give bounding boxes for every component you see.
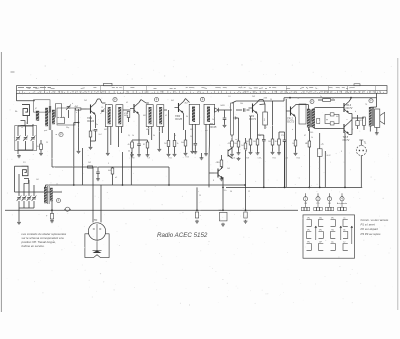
switch arrow 3 <box>351 226 353 244</box>
dial scale band <box>17 86 388 94</box>
switch pin P4 <box>340 197 344 201</box>
svg-text:OC72: OC72 <box>343 138 350 142</box>
resistor R11 <box>220 160 223 167</box>
resistor R10 <box>184 140 187 146</box>
svg-text:R24: R24 <box>297 158 300 160</box>
loudspeaker pins <box>93 228 95 230</box>
wire det h <box>218 109 232 111</box>
svg-text:6k8: 6k8 <box>108 170 111 172</box>
junction rail2 <box>350 97 352 99</box>
cap beside T5 <box>317 119 320 124</box>
switch pin stub P3 <box>329 193 331 196</box>
capacitor C25 <box>96 172 100 173</box>
wire C18 up <box>284 132 286 140</box>
ground T4a <box>190 150 194 153</box>
svg-text:b: b <box>355 111 356 113</box>
dial band cursor box <box>104 83 113 85</box>
wire R6 up <box>131 140 133 142</box>
junction busB4 <box>319 187 321 189</box>
wire R12 down <box>250 145 252 151</box>
ground R13 <box>256 152 260 155</box>
wire TR5b emit <box>349 134 352 136</box>
svg-text:12: 12 <box>56 184 58 186</box>
svg-text:OA70: OA70 <box>220 104 225 107</box>
wire Rv dn <box>231 147 233 153</box>
scan noise speckle <box>182 196 183 197</box>
switch pin P1 <box>303 197 307 201</box>
wire T2 v1225 <box>122 152 124 185</box>
tuning gang CV1 <box>16 136 21 141</box>
transistor TR5a <box>340 102 349 114</box>
svg-text:560: 560 <box>253 141 256 143</box>
wire v2845 <box>284 142 286 188</box>
svg-text:Comm. vu de l arriere: Comm. vu de l arriere <box>361 218 389 222</box>
osc transformer T7 coil <box>44 187 46 203</box>
wire TR2 coll h <box>141 100 146 104</box>
node B <box>154 98 158 102</box>
resistor R9 <box>173 141 176 147</box>
wire C8 gnd <box>138 146 140 154</box>
svg-text:T4: T4 <box>297 98 299 100</box>
switch pin P2 <box>316 197 320 201</box>
wire L4 down3 <box>28 180 30 196</box>
wire C24 up <box>245 150 247 210</box>
svg-text:2k3: 2k3 <box>252 96 255 98</box>
wire TR5a emit <box>349 113 352 115</box>
resistor R22 <box>244 143 247 149</box>
node F1 <box>59 132 63 136</box>
coupling box <box>299 104 306 124</box>
svg-text:0k1: 0k1 <box>171 100 174 102</box>
wire T4a pin1 <box>191 124 193 150</box>
resistor R2 <box>76 108 81 110</box>
wire to TR2 base <box>129 109 131 111</box>
svg-text:cv: cv <box>21 127 23 129</box>
trimmer CT2 <box>17 196 22 201</box>
svg-text:462: 462 <box>143 115 146 117</box>
svg-text:C1: C1 <box>101 107 103 109</box>
wire gang mid v <box>25 126 27 136</box>
wire T3b out <box>164 109 167 111</box>
wire LS gnd <box>376 127 378 131</box>
svg-text:tr2: tr2 <box>115 176 117 179</box>
junction C <box>78 122 80 124</box>
speaker LS cone <box>380 112 385 124</box>
wire TR5a coll <box>349 99 351 102</box>
wire TR3 emit <box>183 114 185 131</box>
osc transformer T1 primary <box>45 108 47 126</box>
wire det out <box>214 109 216 111</box>
electrolytic C19 <box>317 149 322 157</box>
junction busB3 <box>309 187 311 189</box>
node S <box>310 100 314 104</box>
wire TR2 coll <box>139 100 141 103</box>
svg-text:Radio ACEC 5152: Radio ACEC 5152 <box>157 232 208 239</box>
wire T7 bot <box>51 201 53 214</box>
osc transformer T1 core <box>48 106 50 130</box>
ground C23 <box>221 223 225 226</box>
wire R10 down <box>185 146 187 152</box>
junction A2 <box>244 184 246 186</box>
transistor TR2 <box>130 103 139 115</box>
wire T4b pin1 <box>205 124 207 152</box>
svg-text:5k: 5k <box>153 135 155 137</box>
output transformer T6 core <box>371 107 373 126</box>
ground T4b <box>204 153 208 156</box>
svg-text:8k2: 8k2 <box>246 141 249 143</box>
wire R24 left <box>318 99 323 101</box>
wire R6 h <box>132 139 148 141</box>
wire emit h <box>258 134 264 136</box>
scan edge left <box>0 52 2 312</box>
wire T6 top <box>370 106 376 108</box>
svg-text:e: e <box>347 119 348 121</box>
wire cap98 dn <box>97 174 99 178</box>
svg-text:9: 9 <box>341 151 342 153</box>
svg-text:R21: R21 <box>273 158 276 160</box>
dial band mark right <box>354 84 360 86</box>
resistor R1 <box>40 144 43 150</box>
wire C18 down <box>284 142 286 188</box>
resistor R14 <box>271 139 274 145</box>
IF transformer T2 secondary <box>116 105 123 127</box>
resistor R7 <box>146 142 149 148</box>
capacitor C13 <box>223 118 227 119</box>
T2 trimmer <box>101 109 104 111</box>
ground TR7 base <box>200 157 204 160</box>
svg-text:1k2: 1k2 <box>37 146 40 148</box>
capacitor C18 <box>283 140 287 141</box>
ground input <box>17 155 21 158</box>
wire CT gnd h <box>19 207 34 209</box>
junction B1 <box>263 187 265 189</box>
switch pin stub P1 <box>305 193 307 196</box>
scan edge right <box>397 58 399 310</box>
wire R15 up <box>278 132 280 139</box>
wire R16 down <box>295 146 297 152</box>
resistor R15 <box>278 139 281 145</box>
wire C12 down <box>194 145 196 151</box>
wire T4b pin2 <box>209 124 211 140</box>
wire v209 up <box>208 140 211 158</box>
ground bl <box>17 221 21 224</box>
svg-text:6Po: 6Po <box>319 230 322 232</box>
wire T2b out <box>123 109 129 111</box>
svg-text:2k2: 2k2 <box>84 100 87 102</box>
svg-text:4a: 4a <box>343 218 345 220</box>
wire lamp down <box>360 156 362 188</box>
ground C8 <box>137 154 141 157</box>
transistor TR1 <box>87 103 96 115</box>
wire R2 to base <box>81 108 87 110</box>
svg-text:470: 470 <box>124 113 127 115</box>
wire gang left v <box>17 126 19 136</box>
svg-text:25: 25 <box>199 195 201 197</box>
trimmer CT4 <box>27 196 32 201</box>
wire emit res h <box>352 117 364 119</box>
resistor R20 <box>88 166 93 168</box>
wire R9 up <box>174 133 176 141</box>
wire R14 up <box>272 101 274 139</box>
phase resistor a <box>330 113 334 116</box>
svg-text:1n: 1n <box>92 130 94 132</box>
node D <box>200 97 204 101</box>
wire T5 sec bot <box>313 128 315 129</box>
svg-text:12: 12 <box>332 98 334 100</box>
svg-text:+25: +25 <box>321 144 324 146</box>
electrolytic C23 box <box>220 212 228 221</box>
wire C19 down <box>319 156 321 187</box>
wire gang r v <box>32 124 34 136</box>
ground LS <box>375 132 379 135</box>
wire C16 down <box>263 141 265 187</box>
ground C12 <box>193 151 197 154</box>
svg-text:50: 50 <box>270 99 272 101</box>
aerial coupling loop L2 <box>21 121 26 126</box>
svg-text:1k2: 1k2 <box>88 162 91 164</box>
transistor TR7 <box>228 148 233 159</box>
svg-text:0k12: 0k12 <box>327 155 331 157</box>
switch contact S1b <box>58 118 65 124</box>
wire TR2 coll h2 <box>146 102 149 104</box>
svg-text:1k: 1k <box>132 135 134 137</box>
svg-text:0k5: 0k5 <box>360 120 363 122</box>
switch contacts <box>307 220 312 227</box>
svg-text:50: 50 <box>259 135 261 137</box>
resistor R5 <box>127 112 130 118</box>
IF transformer T4 primary <box>189 104 199 124</box>
wire R14 down <box>272 145 274 151</box>
osc transformer T7 core <box>47 186 49 204</box>
wire R11 up <box>221 155 223 160</box>
svg-text:2x: 2x <box>320 96 322 98</box>
phase resistor b <box>330 122 334 125</box>
resistor R6 <box>131 142 134 148</box>
wire R3 down <box>90 137 92 146</box>
svg-text:10k: 10k <box>240 103 243 105</box>
switch symbol SW2 <box>65 207 69 211</box>
wire CV1 down <box>17 141 19 154</box>
wire C17 down <box>264 125 266 129</box>
junction B2 <box>284 187 286 189</box>
wire TR4 coll <box>258 100 260 103</box>
potentiometer VOL <box>231 103 234 135</box>
transistor TR4 <box>249 102 258 114</box>
wire T7 top <box>44 185 46 187</box>
svg-text:2k: 2k <box>174 135 176 137</box>
wire L4 top <box>15 165 22 167</box>
ground R7 <box>146 154 150 157</box>
wire C13 down <box>224 120 226 125</box>
svg-text:5k6: 5k6 <box>181 142 184 144</box>
switch strip P3 <box>329 201 331 207</box>
svg-text:1k: 1k <box>292 143 294 145</box>
wire R6 gnd <box>131 148 133 154</box>
node A <box>113 98 117 102</box>
wire C17 h <box>260 103 266 106</box>
ground TR1 <box>89 146 93 149</box>
driver transformer T5 primary <box>307 109 310 128</box>
ground TR6 <box>220 178 224 181</box>
wire R3 up <box>90 116 92 132</box>
resistor R12 <box>249 139 252 145</box>
wire TR1 coll3 <box>100 99 102 103</box>
ground R11b <box>237 152 241 155</box>
svg-text:10k: 10k <box>234 143 237 145</box>
osc transformer T7 coil2 <box>50 188 52 201</box>
IF transformer T3 secondary <box>157 105 164 127</box>
loudspeaker TD basket <box>85 234 109 258</box>
svg-text:47k: 47k <box>228 143 231 145</box>
lamp top bar <box>359 139 363 141</box>
resistor R17 <box>308 141 311 147</box>
wire R21 dn <box>112 174 114 185</box>
wire R12 up <box>250 116 252 139</box>
wire C23 up <box>222 187 224 210</box>
svg-text:1Po: 1Po <box>307 218 310 220</box>
wire TR5b coll <box>349 120 352 123</box>
ground R8 <box>167 153 171 156</box>
svg-text:3k3: 3k3 <box>275 141 278 143</box>
wire C22 up <box>196 187 198 210</box>
wire CV2 down <box>25 141 27 150</box>
svg-text:C35: C35 <box>285 158 288 160</box>
trimmer CT3 <box>22 196 27 201</box>
wire T5 top pin <box>307 105 309 109</box>
bus A y185 <box>46 184 246 186</box>
wire R7 up <box>147 140 149 142</box>
wire CT4 down <box>28 201 30 208</box>
svg-text:4k7: 4k7 <box>128 144 131 146</box>
svg-text:560: 560 <box>310 132 313 134</box>
wire TR4 coll h2 <box>263 100 265 105</box>
wire R17 down <box>308 147 310 187</box>
rail step corner <box>283 98 285 101</box>
wire TR4b base <box>285 110 288 112</box>
resistor R19 <box>363 117 366 126</box>
phase network box <box>325 115 339 124</box>
svg-text:47: 47 <box>305 143 307 145</box>
supply bus y210 <box>5 209 298 211</box>
junction bus2 <box>222 209 224 211</box>
svg-text:C4: C4 <box>228 96 230 98</box>
switch contact S1a <box>56 104 62 118</box>
trimmer CT5 <box>32 196 37 201</box>
wire C16 up <box>263 135 265 140</box>
wire TR1 emit v <box>95 115 97 128</box>
svg-text:8: 8 <box>213 180 214 182</box>
wire L4 v <box>14 166 16 192</box>
wire vol to C15 <box>236 109 242 111</box>
wire supply drop <box>285 99 287 187</box>
loudspeaker magnet <box>93 250 102 253</box>
transistor TR3 <box>175 102 184 114</box>
svg-text:30p: 30p <box>66 127 69 129</box>
wire pot top <box>232 101 236 103</box>
svg-text:5n: 5n <box>96 124 98 126</box>
wire TR4 coll h <box>260 99 264 101</box>
wire v3253 up <box>324 151 326 160</box>
wire R10 up <box>185 130 187 140</box>
wire junction v <box>78 109 80 123</box>
svg-text:R13: R13 <box>186 157 189 159</box>
svg-text:P2 sur depart: P2 sur depart <box>361 227 379 231</box>
svg-text:k1: k1 <box>165 115 167 117</box>
wire R5 down <box>128 118 130 123</box>
wire R15 down <box>278 145 280 152</box>
wire L4 down4 <box>33 185 35 196</box>
wire T2b pin2 <box>120 127 122 134</box>
wire C8 up <box>138 140 140 144</box>
transistor TR5b <box>340 123 349 135</box>
capacitor C16 <box>262 140 266 141</box>
wire R22 up <box>245 138 247 143</box>
wire T2a pin1 <box>107 127 109 153</box>
wire L4 down2 <box>23 183 25 196</box>
wire junction down <box>78 123 80 151</box>
driver transformer T5 core <box>309 110 311 128</box>
IF transformer T2 primary <box>105 105 112 127</box>
svg-text:R11: R11 <box>169 158 172 160</box>
wire T1 down <box>51 130 53 167</box>
wire T3a pin2 <box>151 127 153 141</box>
svg-text:462: 462 <box>146 129 149 131</box>
wire R17 up <box>308 129 310 142</box>
ground Rv <box>230 153 234 156</box>
wire R21 up <box>112 167 114 168</box>
svg-text:P1 a l arret: P1 a l arret <box>361 223 375 227</box>
wire T4a pin2 <box>194 124 196 143</box>
wire T5 sec top <box>313 108 315 110</box>
wire junction h <box>74 122 79 124</box>
svg-text:T6: T6 <box>365 104 367 106</box>
resistor R24 <box>323 99 331 102</box>
svg-text:1k: 1k <box>128 151 130 153</box>
svg-text:pp: pp <box>326 119 328 121</box>
wire TR4b emit <box>295 117 297 140</box>
wire C20 dn <box>357 126 359 129</box>
resistor Rv <box>231 141 234 147</box>
switch arrow 1 <box>315 226 317 240</box>
junction y185 b <box>73 184 75 186</box>
loudspeaker TD circle <box>88 223 105 240</box>
frame aerial L1 <box>22 105 30 116</box>
wire out coll dn <box>344 133 346 188</box>
svg-text:8b: 8b <box>343 230 345 232</box>
wire R11b dn <box>238 147 240 152</box>
wire CT3 down <box>23 201 25 208</box>
junction bus1 <box>196 209 198 211</box>
switch strip P4 <box>341 201 343 207</box>
svg-text:462: 462 <box>104 129 107 131</box>
osc coil L4 <box>22 166 29 176</box>
wire bl h1 <box>15 191 63 193</box>
wire TR5a base <box>315 107 340 109</box>
svg-text:1k5: 1k5 <box>241 145 244 147</box>
svg-text:GO: GO <box>36 179 39 181</box>
wire T2a pin2 <box>110 127 112 146</box>
svg-text:OC45: OC45 <box>175 117 183 121</box>
wire CV3 down <box>32 141 34 150</box>
driver transformer T5 sec <box>312 109 315 128</box>
wire L1 down <box>26 116 28 124</box>
svg-text:5: 5 <box>108 163 109 165</box>
svg-text:11a: 11a <box>331 242 334 244</box>
wire T3b pin1 <box>158 127 160 149</box>
svg-text:k: k <box>162 129 163 131</box>
trimmer CT1 <box>66 105 71 110</box>
transistor TR6 <box>214 167 223 179</box>
